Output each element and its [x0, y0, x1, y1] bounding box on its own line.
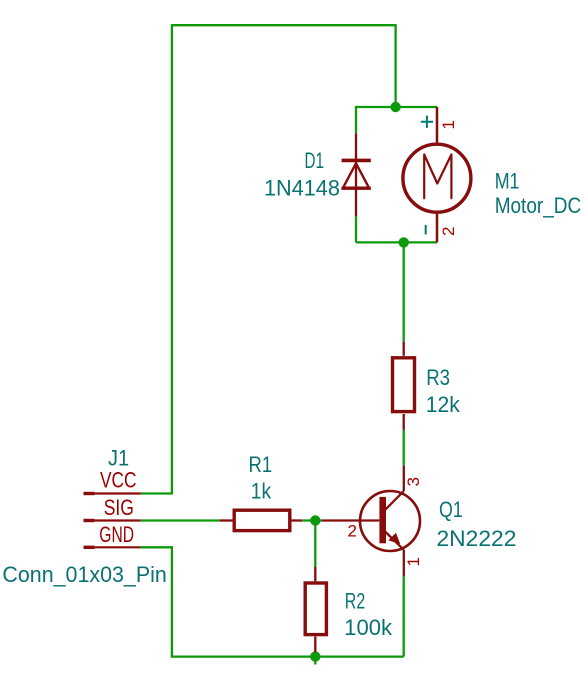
wire top right vertical — [394, 24, 396, 107]
wire R2 bottom stub — [314, 652, 316, 664]
pin name + (motor pin 1) — [421, 116, 433, 128]
svg-text:1N4148: 1N4148 — [264, 176, 340, 201]
node junction motor bottom — [399, 237, 409, 247]
diode D1 — [342, 133, 371, 216]
svg-text:D1: D1 — [305, 148, 324, 173]
svg-text:SIG: SIG — [104, 495, 134, 520]
svg-text:Q1: Q1 — [439, 497, 463, 522]
wire R1 right to base junction — [302, 519, 322, 521]
svg-text:1: 1 — [404, 557, 423, 566]
resistor R2 — [305, 567, 326, 652]
connector J1 pin GND stub — [84, 546, 141, 549]
svg-text:Conn_01x03_Pin: Conn_01x03_Pin — [2, 562, 166, 587]
wire motor loop top — [356, 106, 437, 108]
svg-text:1: 1 — [439, 120, 458, 129]
svg-text:2: 2 — [439, 227, 458, 236]
svg-text:Motor_DC: Motor_DC — [495, 193, 582, 218]
svg-text:M1: M1 — [495, 169, 520, 194]
wire diode top stub — [355, 106, 357, 133]
wire VCC left vertical rail — [171, 24, 173, 493]
svg-text:2N2222: 2N2222 — [437, 526, 517, 551]
motor M1 — [403, 107, 471, 242]
wire bottom horizontal — [172, 655, 404, 657]
svg-text:GND: GND — [99, 522, 134, 547]
connector J1 pin SIG stub — [84, 519, 141, 522]
svg-text:J1: J1 — [108, 446, 129, 471]
svg-text:R3: R3 — [426, 365, 450, 390]
wire VCC pin to rail — [141, 492, 173, 494]
wire GND pin to rail — [141, 546, 173, 548]
svg-text:VCC: VCC — [100, 468, 136, 493]
svg-text:R2: R2 — [345, 589, 365, 614]
node junction base/R2 — [310, 515, 320, 525]
wire rail to R3 — [403, 242, 405, 341]
resistor R1 — [220, 510, 302, 530]
svg-text:R1: R1 — [249, 452, 273, 477]
wire emitter to bottom — [403, 576, 405, 656]
wire diode bottom stub — [355, 216, 357, 242]
wire SIG to R1 — [141, 519, 220, 521]
resistor R3 — [393, 342, 415, 430]
wire VCC top horizontal — [172, 24, 396, 26]
svg-text:1k: 1k — [251, 479, 272, 504]
node junction top — [390, 102, 400, 112]
wire motor loop bottom — [356, 241, 437, 243]
wire R3 to collector — [403, 430, 405, 466]
transistor Q1 — [322, 466, 420, 577]
svg-text:3: 3 — [404, 477, 423, 486]
pin name - (motor pin 2) — [425, 225, 427, 235]
svg-text:100k: 100k — [344, 615, 393, 640]
wire GND left vertical — [171, 547, 173, 657]
wire junction down to R2 — [314, 521, 316, 568]
svg-text:2: 2 — [348, 521, 357, 540]
connector J1 pin VCC stub — [84, 492, 141, 495]
svg-text:12k: 12k — [426, 392, 461, 417]
node junction bottom R2 — [310, 651, 320, 661]
